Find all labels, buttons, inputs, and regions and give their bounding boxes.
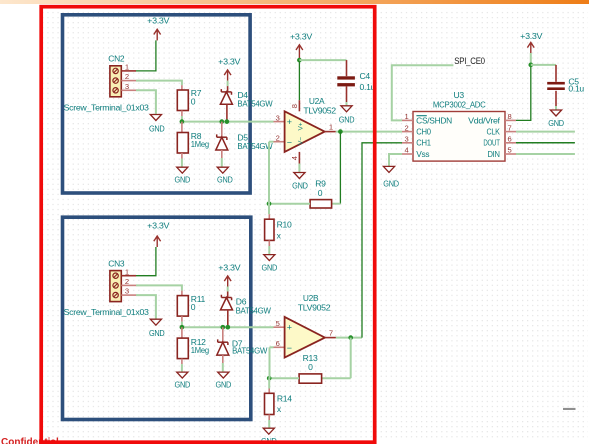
pin D5 cathode [221,122,223,138]
svg-text:GND: GND [175,176,191,185]
wire pin4 to GND [298,164,300,173]
junction U2A Vcc [297,58,302,63]
pin R11 top [181,291,183,296]
svg-text:DOUT: DOUT [483,138,499,148]
connector CN3 [108,258,125,301]
pin 8 U3 Vdd/Vref [468,112,516,125]
svg-text:V+: V+ [298,122,305,130]
wire CN3 pin2 to R11 [136,285,182,290]
svg-text:7: 7 [329,328,333,337]
pin 3 CN3 [121,287,136,296]
wire DOUT out [516,142,575,144]
wire feedback2 up [269,347,271,378]
svg-text:4: 4 [290,156,299,160]
svg-text:GND: GND [216,380,232,389]
svg-text:DIN: DIN [488,149,500,159]
pin R8 top [181,122,183,133]
svg-text:CLK: CLK [487,127,501,137]
pin D6 anode [227,310,229,327]
wire +3.3V to D4 [227,81,229,86]
svg-text:CS/SHDN: CS/SHDN [416,115,452,125]
wire D7 to GND [222,363,224,372]
svg-text:4: 4 [405,146,409,155]
svg-text:2: 2 [276,134,280,143]
wire U2A out down [339,132,341,204]
wire SPI_CE0 vertical [392,65,454,120]
svg-text:2: 2 [125,72,129,81]
junction feedback [267,201,272,206]
wire CN2 pin3 to GND [136,90,156,114]
svg-text:3: 3 [125,287,129,296]
svg-text:CN3: CN3 [108,258,125,268]
power +3.3V (CN3) [147,221,170,247]
pin 2 CN3 [121,277,136,286]
svg-text:R10: R10 [277,220,292,230]
pin 3 U2A [274,113,285,122]
resistor R8 [177,131,209,153]
pin 1 CN3 [121,267,136,276]
pin 5 U2B [274,319,285,328]
wire R9 left [269,203,310,205]
svg-text:2: 2 [125,277,129,286]
watermark Confidential [1,437,59,444]
svg-text:GND: GND [149,125,165,134]
ground (R14) [261,428,277,444]
svg-text:+: + [287,117,292,127]
svg-text:+: + [287,322,292,332]
svg-text:GND: GND [175,380,191,389]
resistor R9 [310,179,332,208]
svg-text:+3.3V: +3.3V [147,15,170,25]
svg-text:+3.3V: +3.3V [520,31,543,41]
wire Vcc to C4 [299,59,346,61]
svg-text:C4: C4 [360,71,371,81]
svg-text:6: 6 [276,339,280,348]
junction node-R7/R8 [180,119,185,124]
pin 4 U2A [290,152,299,164]
svg-text:0: 0 [318,188,323,198]
svg-text:3: 3 [276,113,280,122]
node wire (bottom clamp node) [182,326,274,328]
wire CN3 pin3 to GND [136,295,156,319]
wire R8 to GND [181,159,183,168]
svg-text:SPI_CE0: SPI_CE0 [454,56,485,66]
wire feedback to pin2 [269,141,274,143]
svg-text:Vdd/Vref: Vdd/Vref [468,115,501,125]
svg-text:BAT54GW: BAT54GW [236,306,272,316]
svg-text:CH0: CH0 [416,127,431,137]
svg-text:GND: GND [149,329,165,338]
pin 1 CN2 [121,63,136,72]
pin 1 U2A [325,122,336,131]
svg-text:GND: GND [383,179,399,188]
pin C4 bottom [346,86,348,102]
power +3.3V (D6) [218,262,241,286]
junction U3 Vcc [528,63,533,68]
svg-text:Screw_Terminal_01x03: Screw_Terminal_01x03 [64,307,150,317]
capacitor C4 [337,71,375,92]
resistor R13 [299,353,322,383]
wire feedback up [268,142,270,204]
pin R14 top [268,389,270,394]
pin R7 top [181,85,183,90]
capacitor C5 [547,76,584,93]
diode D6 [221,295,272,316]
svg-text:GND: GND [339,116,355,125]
svg-text:3: 3 [125,82,129,91]
connector CN2 [108,54,125,97]
wire C4 to GND [346,102,348,106]
ground (R12) [175,372,191,389]
wire U3 Vss to GND [389,154,402,166]
wire Vcc down to pin8 [298,60,300,100]
wire R12 to GND [181,364,183,372]
pin 2 U3 CH0 [402,123,431,136]
svg-text:0: 0 [308,362,313,372]
ground (CN3) [149,319,165,338]
svg-text:1: 1 [125,267,129,276]
wire CN2 pin1 to +3.3V [136,40,156,71]
ground (CN2) [149,115,165,134]
svg-text:GND: GND [292,181,308,190]
ground (R8) [175,167,191,184]
svg-text:1Meg: 1Meg [191,345,209,355]
wire U2A out to U3 CH0 [336,131,402,133]
pin D7 anode [222,355,224,363]
svg-text:0: 0 [191,97,196,107]
ground (D5) [217,167,233,184]
wire R10 to GND [268,246,270,255]
wire R14 to GND [268,420,270,428]
svg-text:1: 1 [125,63,129,72]
resistor R11 [177,294,205,316]
pin 1 U3 CS/SHDN [402,112,452,125]
stray dash [563,408,576,410]
wire U2B out up to U3 CH1 [362,143,402,338]
pin 6 U2B [274,339,285,348]
ground (C5) [548,110,564,128]
junction node2-D7 [220,325,225,330]
wire R13 left [269,377,299,379]
svg-text:5: 5 [508,146,512,155]
pin 7 U3 CLK [487,123,517,136]
svg-text:6: 6 [508,135,512,144]
red highlight box [41,7,375,443]
svg-text:+3.3V: +3.3V [290,32,313,42]
svg-text:GND: GND [548,119,564,128]
pin 2 U2A [274,134,285,143]
svg-text:GND: GND [262,263,278,272]
annotation box 1 (top input stage) [63,15,251,193]
svg-text:MCP3002_ADC: MCP3002_ADC [433,99,486,109]
pin 3 CN2 [121,82,136,91]
wire R7 bottom to node [181,116,183,122]
junction U2B out [348,335,353,340]
svg-text:+3.3V: +3.3V [218,262,241,272]
pin D7 cathode [222,327,224,342]
svg-text:8: 8 [508,112,512,121]
svg-text:BAT54GW: BAT54GW [232,346,268,356]
junction node-D5 [219,119,224,124]
ground (U2A pin4) [292,173,308,191]
pin R7 bottom [181,111,183,117]
pin R8 bottom [181,153,183,159]
diode D5 [216,133,274,151]
wire to R14 [268,378,270,388]
svg-text:GND: GND [217,176,233,185]
svg-text:1: 1 [405,112,409,121]
wire R11 bottom to node [181,322,183,328]
power +3.3V (U2A) [290,32,313,59]
pin R11 bottom [181,316,183,322]
label Screw_Terminal_01x03 (CN2) [64,102,150,112]
pin 6 U3 DOUT [483,135,516,148]
power +3.3V (CN2) [147,15,170,40]
svg-text:+3.3V: +3.3V [147,221,170,231]
svg-text:BAT54GW: BAT54GW [237,98,273,108]
wire U2B out [336,337,362,339]
svg-text:Screw_Terminal_01x03: Screw_Terminal_01x03 [64,102,150,112]
pin D4 anode [226,104,228,121]
pin C5 top [555,65,557,82]
svg-text:R14: R14 [277,394,292,404]
svg-text:−: − [287,137,292,147]
annotation box 2 (bottom input stage) [63,217,251,419]
svg-text:0: 0 [191,302,196,312]
node wire (top clamp node) [182,121,274,123]
svg-text:1: 1 [329,122,333,131]
pin R12 top [181,327,183,338]
wire Vcc to C5 [531,64,556,66]
junction node2-D6 [225,325,230,330]
top orange bar [0,0,589,4]
ground (D7) [216,372,232,389]
wire feedback2 to pin6 [270,346,274,348]
svg-text:3: 3 [405,135,409,144]
wire +3.3V stem [530,53,532,65]
svg-text:Vss: Vss [416,149,429,159]
junction U2A out [338,129,343,134]
pin 4 U3 Vss [402,146,429,159]
junction feedback2 [267,376,272,381]
resistor R12 [177,337,209,359]
wire R13 right [322,377,351,379]
resistor R10 [265,219,292,240]
pin R10 bottom [268,240,270,246]
junction node2-R11/R12 [180,325,185,330]
pin 2 CN2 [121,72,136,81]
pin C5 bottom [555,91,557,106]
pin 8 U2A [290,100,299,111]
pin D4 cathode [227,86,229,91]
pin R10 top [268,214,270,219]
svg-text:0.1u: 0.1u [568,83,584,93]
label Screw_Terminal_01x03 (CN3) [64,307,150,317]
net label SPI_CE0 [454,56,485,66]
pin R12 bottom [181,359,183,365]
wire CLK out [516,131,575,133]
power +3.3V (D4) [218,56,241,80]
pin 7 U2B [325,328,336,337]
svg-text:7: 7 [508,123,512,132]
wire C5 to GND [555,106,557,110]
pin 3 U3 CH1 [402,135,431,148]
pin 5 U3 DIN [488,146,517,159]
resistor R14 [265,393,293,414]
svg-text:2: 2 [405,123,409,132]
resistor R7 [177,88,201,110]
diode D4 [220,89,273,108]
wire U3 Vdd to +3.3V [516,65,531,121]
power +3.3V (U3) [520,31,543,53]
wire +3.3V to D6 [227,287,229,292]
wire R9 right [332,203,341,205]
ic U3 MCP3002_ADC [413,90,505,161]
pin D6 cathode [227,292,229,298]
svg-text:V−: V− [298,137,305,145]
wire to R10 [268,204,270,215]
ground (U3 Vss) [383,166,399,188]
ground (C4) [339,106,355,125]
ground (R10) [262,255,278,273]
wire CN3 pin1 to +3.3V [136,247,156,276]
svg-text:−: − [287,343,292,353]
wire CN2 pin2 to R7 [136,81,182,86]
svg-text:8: 8 [290,104,299,108]
diode D7 [217,339,268,356]
wire DIN out [516,153,575,155]
svg-text:+3.3V: +3.3V [218,56,241,66]
svg-text:1Meg: 1Meg [191,139,209,149]
svg-text:TLV9052: TLV9052 [298,302,331,312]
pin D5 anode [221,150,223,158]
pin C4 top [346,60,348,76]
svg-text:TLV9052: TLV9052 [303,106,336,116]
op-amp U2B [285,293,331,358]
pin R14 bottom [268,415,270,421]
svg-text:5: 5 [276,319,280,328]
junction node-D4 [225,119,230,124]
svg-text:CH1: CH1 [416,138,431,148]
wire D5 to GND [221,158,223,167]
wire U2B out down [350,338,352,379]
svg-text:CN2: CN2 [108,54,125,64]
op-amp U2A [285,96,337,152]
